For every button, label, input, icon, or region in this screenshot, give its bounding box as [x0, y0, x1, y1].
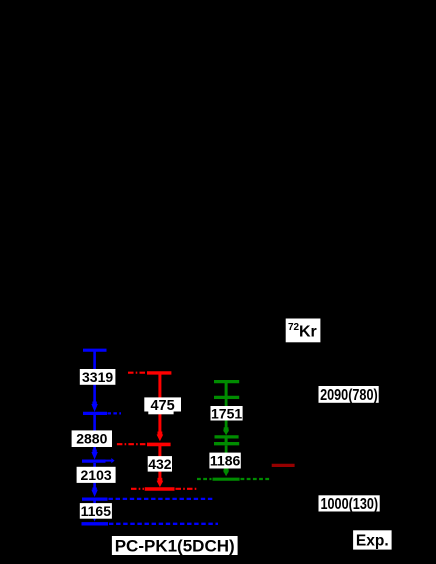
label 1000(130) experimental energy — [319, 495, 380, 513]
green band ground level — [213, 478, 240, 481]
red lower level dash-dot extension right — [176, 488, 198, 490]
svg-text:1165: 1165 — [81, 503, 112, 519]
blue level 1165 — [82, 498, 108, 501]
svg-text:432: 432 — [148, 456, 172, 472]
red band middle level — [147, 443, 171, 447]
green ground level dashed extension left — [197, 478, 212, 480]
blue transition arrow 2880 to 2103 — [91, 415, 97, 460]
red lower level dash-dot extension left — [131, 488, 144, 490]
red band lower level — [145, 487, 175, 490]
label 2090(780) experimental energy — [319, 386, 379, 404]
svg-text:1751: 1751 — [211, 405, 242, 421]
svg-text:PC-PK1(5DCH): PC-PK1(5DCH) — [115, 537, 235, 556]
svg-text:1000(130): 1000(130) — [321, 496, 379, 513]
label 432 — [148, 456, 172, 472]
green ground level dashed extension right — [241, 478, 271, 480]
label 1751 — [211, 405, 243, 421]
red upper level dash-dot extension left — [128, 372, 147, 374]
label PC-PK1(5DCH) theory column — [112, 536, 238, 556]
svg-text:72: 72 — [288, 322, 300, 333]
svg-text:3319: 3319 — [82, 369, 113, 385]
red band upper level — [147, 371, 171, 374]
green band level 4 (middle doublet lower) — [214, 442, 239, 445]
green stem between doublet levels — [225, 383, 228, 397]
label 3319 — [80, 369, 116, 385]
green band level 1 (top doublet upper) — [214, 380, 239, 383]
red transition arrow 432 — [157, 446, 164, 488]
red middle level dash-dot extension left — [117, 443, 146, 445]
green band level 2 (top doublet lower) — [214, 396, 239, 399]
blue transition arrow 3319 to 2880 — [91, 351, 97, 412]
dark red experimental level — [272, 464, 295, 467]
svg-text:Kr: Kr — [299, 324, 317, 341]
blue level 1165 dashed extension to experiment — [109, 498, 215, 500]
label 1186 — [209, 453, 240, 469]
svg-text:475: 475 — [150, 398, 174, 414]
label 2103 — [77, 467, 116, 483]
label 475 — [144, 397, 181, 414]
label 72Kr nucleus — [286, 319, 321, 343]
blue level 2880 — [83, 412, 107, 415]
svg-text:2880: 2880 — [76, 431, 107, 447]
svg-text:2090(780): 2090(780) — [320, 387, 378, 404]
blue transition arrow 2103 to 1165 — [91, 463, 97, 497]
green transition arrow 1186 — [223, 446, 229, 477]
svg-text:1186: 1186 — [210, 453, 241, 469]
blue level 2103 — [82, 460, 106, 463]
blue level 3319 (top of blue band) — [83, 349, 107, 352]
blue small right arrow at level 2103 — [104, 458, 115, 463]
label 2880 — [72, 430, 112, 447]
blue transition arrow 1165 to ground — [91, 501, 97, 522]
green band level 3 (middle doublet upper) — [215, 435, 239, 438]
green transition arrow 1751 — [223, 399, 229, 436]
red transition arrow 475 — [157, 374, 164, 441]
blue ground-state level — [82, 522, 109, 525]
label Exp. experimental column — [353, 530, 392, 549]
green stem between middle doublet — [225, 438, 228, 443]
blue ground-state dashed extension to experiment — [109, 523, 218, 525]
svg-text:Exp.: Exp. — [356, 533, 389, 550]
svg-text:2103: 2103 — [81, 467, 112, 483]
blue level 2880 dashed extension — [108, 412, 122, 414]
label 1165 — [80, 503, 112, 519]
